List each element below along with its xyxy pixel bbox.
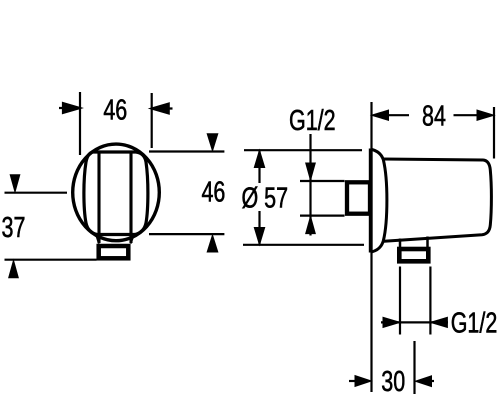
flange cone outline [372,150,387,252]
inlet nipple G1/2 [347,182,370,213]
wall extension line [370,102,372,392]
dim dia57: up arrow [254,150,264,167]
outer circle of escutcheon [73,144,160,241]
svg-text:30: 30 [381,366,405,398]
dim 46 top: right extension line [151,93,153,148]
inner vertical line right [129,153,132,243]
dim 46 top: right arrow [152,104,173,114]
outlet nut front [99,246,129,258]
svg-text:46: 46 [201,177,225,209]
dim G1/2 inlet: dimension line [309,134,311,236]
dim 37: bottom extension line [5,259,97,261]
dim 37: down arrow [10,175,20,192]
inner vertical line left [97,153,100,243]
nozzle neck right [426,237,429,249]
svg-text:Ø 57: Ø 57 [242,183,289,215]
dim G1/2 inlet: bottom extension line [300,215,345,217]
cap face outline [84,152,148,235]
dim G1/2 inlet: down arrow [306,163,316,180]
neck slant left [97,236,100,244]
nozzle nut side [399,249,428,261]
dim 46 right: bottom extension line [149,233,224,235]
dim G1/2 outlet: right arrow [430,317,447,327]
svg-text:84: 84 [422,101,446,133]
dim 84: right extension line [493,107,495,159]
dim 46 right: down arrow [207,134,218,151]
nozzle centerline [413,341,415,394]
dim 46 top: left arrow [59,103,80,113]
body outline [383,159,492,241]
dim dia57: top extension line [244,149,362,151]
dim G1/2 outlet: left extension line [399,267,401,335]
dim 46 right: top extension line [149,150,224,152]
dim G1/2 inlet: top extension line [300,180,345,182]
neck slant right [131,236,134,244]
dim G1/2 inlet: up arrow [306,216,316,233]
dim 84: right arrow with shaft [477,110,494,120]
dim 37: up arrow [9,260,19,277]
nozzle neck left [399,239,402,249]
svg-text:46: 46 [103,95,127,127]
dim 46 right: up arrow [207,235,218,252]
dim dia57: dimension line upper [258,150,260,183]
dim 46 top: left extension line [79,92,81,155]
dim G1/2 outlet: left arrow [383,317,400,327]
dim dia57: down arrow [254,228,264,245]
svg-text:G1/2: G1/2 [451,308,498,340]
dim dia57: bottom extension line [243,244,364,246]
dim 84: left arrow with shaft [372,110,389,120]
dim G1/2 outlet: right extension line [429,267,431,335]
dim dia57: dimension line lower [258,211,260,245]
svg-text:G1/2: G1/2 [289,105,336,137]
wall flange plate [369,149,373,253]
dim 30: right arrow with shaft [415,376,431,387]
svg-text:37: 37 [2,212,26,244]
dim 30: left arrow with shaft [355,376,371,387]
dim 37: top extension line [5,192,68,194]
dim G1/2 outlet: dimension line [381,321,448,323]
